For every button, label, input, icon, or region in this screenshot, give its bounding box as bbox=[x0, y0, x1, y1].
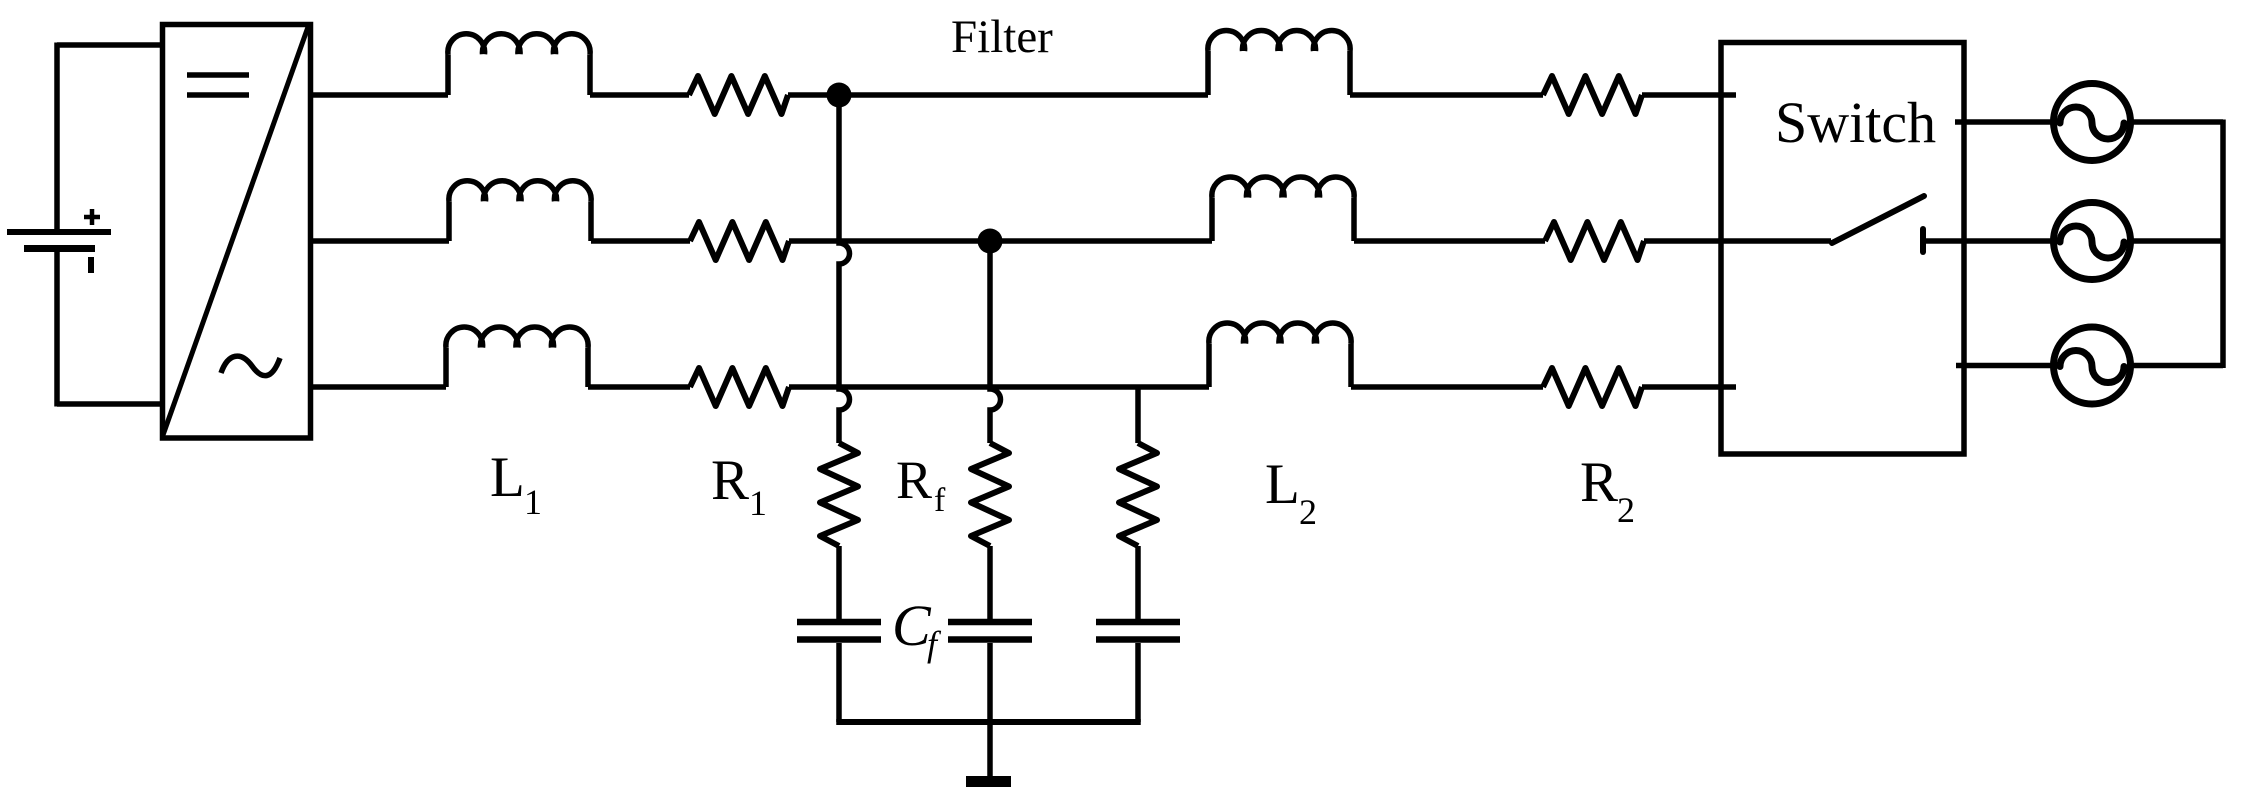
svg-text:Filter: Filter bbox=[951, 11, 1053, 63]
svg-text:Switch: Switch bbox=[1775, 90, 1936, 155]
svg-text:1: 1 bbox=[524, 482, 542, 522]
svg-text:R: R bbox=[896, 450, 932, 510]
svg-text:R: R bbox=[711, 449, 749, 512]
svg-text:C: C bbox=[892, 593, 932, 658]
svg-text:2: 2 bbox=[1617, 490, 1635, 530]
svg-text:1: 1 bbox=[749, 483, 767, 523]
svg-text:L: L bbox=[1265, 453, 1300, 516]
svg-text:L: L bbox=[490, 446, 525, 509]
svg-text:R: R bbox=[1580, 451, 1618, 514]
svg-text:f: f bbox=[934, 482, 946, 519]
svg-text:2: 2 bbox=[1299, 492, 1317, 532]
